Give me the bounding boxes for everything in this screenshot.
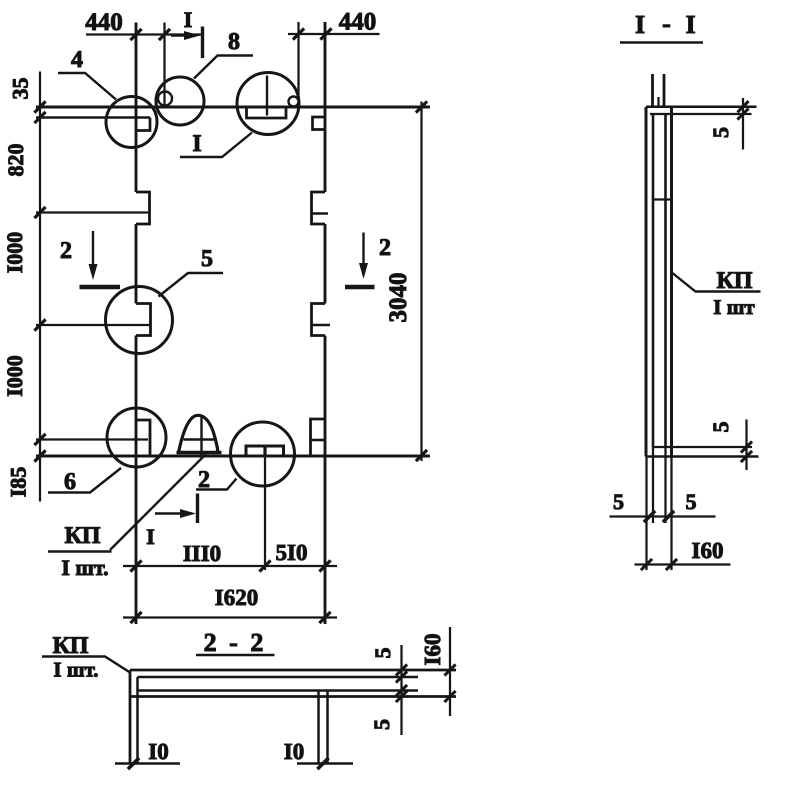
svg-text:5: 5 [708, 422, 733, 433]
svg-text:I60: I60 [692, 538, 724, 563]
dim line 1110 / 510 [123, 565, 337, 567]
svg-text:КП: КП [52, 633, 88, 659]
tick [34, 207, 45, 218]
section bottom edge [646, 455, 759, 458]
leader of detail 4 [58, 73, 116, 100]
detail circle 6 [107, 408, 166, 467]
tick [444, 664, 455, 675]
tick [416, 101, 427, 112]
svg-text:5: 5 [369, 719, 394, 730]
svg-text:I шт: I шт [713, 295, 755, 319]
keyway upper-left [136, 192, 150, 224]
left rib outer [129, 670, 132, 764]
keyway upper-right [312, 192, 326, 224]
panel top edge [36, 106, 430, 109]
svg-text:6: 6 [64, 469, 76, 495]
svg-text:I шт.: I шт. [53, 658, 98, 682]
keyway row line bottom-left [36, 438, 148, 440]
tick [396, 664, 407, 675]
lifting loop in detail 8 [158, 92, 172, 106]
tick [293, 28, 304, 39]
keyway bottom-right [311, 419, 326, 456]
mid rib left [317, 691, 320, 764]
leader of detail 8 [194, 56, 253, 79]
svg-text:I620: I620 [215, 585, 258, 610]
loop wire left [651, 74, 654, 106]
mark leader to bump [110, 454, 206, 550]
dim 5 top right [742, 98, 744, 150]
lifting bump on bottom edge [179, 415, 219, 452]
extension lines to 160 dim [647, 523, 672, 570]
tick [34, 319, 45, 330]
keyway mid-right [312, 304, 326, 336]
left dimension chain line [39, 72, 41, 502]
svg-text:I шт.: I шт. [61, 555, 108, 580]
mark leader I-I [671, 272, 761, 292]
lifting bump centre line [200, 416, 202, 455]
tick [737, 101, 748, 112]
tick [416, 450, 427, 461]
section 2 bar left [80, 285, 121, 290]
corner step in detail 4 [136, 118, 150, 131]
extension line hole axis [163, 23, 165, 108]
lifting bump base [177, 451, 222, 455]
section 2 bar right [345, 285, 375, 290]
dim line 10 left [115, 762, 180, 764]
svg-text:I: I [184, 7, 193, 32]
tick [130, 612, 141, 623]
panel left edge [135, 23, 138, 625]
tick [130, 29, 141, 40]
tick [159, 29, 170, 40]
tick [644, 511, 655, 522]
tick [396, 691, 407, 702]
tick [396, 685, 407, 696]
keyway mid-left (detail 5) [136, 304, 151, 336]
section I arrow bottom [155, 512, 188, 514]
slab inner top line [138, 676, 419, 679]
svg-text:III0: III0 [183, 541, 221, 566]
keyway row bar mid-right [312, 324, 331, 327]
svg-text:5I0: 5I0 [276, 540, 308, 565]
svg-text:I0: I0 [148, 739, 168, 764]
section outer left edge [645, 107, 648, 457]
section top edge [646, 105, 757, 108]
svg-text:КП: КП [64, 523, 100, 549]
keyway row bar bottom-right [311, 439, 325, 442]
svg-text:I85: I85 [6, 467, 31, 498]
tick [259, 560, 270, 571]
svg-text:4: 4 [71, 47, 83, 73]
extension lines below section [647, 447, 672, 523]
panel right edge [324, 22, 327, 624]
svg-text:I000: I000 [2, 232, 27, 274]
detail circle 2 [231, 422, 295, 486]
svg-text:3040: 3040 [385, 273, 412, 323]
svg-text:440: 440 [339, 9, 377, 36]
loop wire stub [657, 97, 659, 106]
section I bar top [201, 27, 204, 59]
svg-text:I0: I0 [284, 739, 304, 764]
section inner bottom line [654, 446, 753, 448]
dim line 440 left [86, 33, 204, 35]
loop wire right [663, 74, 666, 106]
tick [319, 560, 330, 571]
lifting bump chord [184, 438, 218, 441]
heading underline [620, 41, 703, 44]
leader of detail I [180, 133, 252, 158]
svg-text:2: 2 [198, 467, 210, 493]
tick [666, 559, 677, 570]
svg-text:I: I [685, 10, 695, 39]
svg-text:I: I [192, 131, 201, 157]
mark underline 2-2 [42, 657, 130, 673]
section inner right face [664, 114, 667, 447]
tick [317, 758, 328, 769]
svg-text:5: 5 [613, 489, 624, 514]
svg-text:440: 440 [85, 9, 123, 36]
svg-text:5: 5 [370, 648, 395, 659]
tick [737, 108, 748, 119]
tick [34, 112, 45, 123]
svg-text:820: 820 [3, 144, 28, 177]
mid rib right [326, 691, 329, 764]
slab bottom surface [130, 695, 456, 698]
left rib inner [136, 677, 139, 764]
slab inner bottom line [138, 689, 419, 692]
svg-text:5: 5 [201, 246, 213, 272]
svg-text:-: - [662, 9, 671, 38]
leader of detail 5 [159, 273, 224, 297]
detail circle 5 [106, 287, 173, 354]
tick [663, 511, 674, 522]
section inner top line [650, 113, 752, 115]
keyway stem [263, 446, 266, 457]
dim line 3040 [420, 102, 422, 462]
detail circle 4 [106, 97, 157, 148]
dim line 1620 [123, 616, 337, 618]
section mid joint tick [653, 198, 671, 200]
section inner left face [652, 114, 655, 447]
tick [34, 101, 45, 112]
svg-text:I: I [635, 10, 645, 39]
dim line 160 2-2 [449, 627, 451, 716]
keyway bottom-left [136, 420, 150, 456]
svg-text:I000: I000 [2, 355, 27, 397]
svg-text:35: 35 [8, 78, 33, 100]
tick [130, 560, 141, 571]
keyway row line mid-left [36, 324, 151, 326]
svg-text:5: 5 [686, 489, 697, 514]
panel bottom edge [36, 454, 430, 457]
mark underline [48, 550, 112, 553]
section I bar bottom [196, 494, 199, 524]
top edge recess in detail I [247, 107, 287, 118]
tick [741, 451, 752, 462]
tick [741, 441, 752, 452]
centre line in detail I [266, 76, 268, 116]
keyway row bar upper-right [312, 212, 329, 215]
tick [319, 612, 330, 623]
svg-text:I: I [146, 524, 155, 549]
dim line 5 5 walls [610, 515, 716, 517]
dim line 440 right [288, 33, 380, 35]
dim line 160 [635, 563, 731, 565]
section I arrow top [171, 34, 193, 36]
leader of detail 2 [196, 479, 237, 490]
corner step bracket top-right [313, 117, 327, 130]
tick [444, 691, 455, 702]
slab top surface [130, 669, 456, 672]
svg-text:5: 5 [708, 127, 733, 138]
heading underline [196, 654, 275, 657]
svg-text:2: 2 [379, 235, 391, 261]
detail circle I [237, 73, 299, 135]
extension line keyway axis bottom [264, 446, 266, 570]
dim line 5 5 right 2-2 [400, 645, 402, 735]
tick [641, 559, 652, 570]
dim 5 bottom right [745, 420, 747, 471]
detail circle 8 [156, 77, 204, 125]
tick [34, 450, 45, 461]
keyway row line upper-left [36, 211, 150, 213]
section outer right edge [670, 107, 673, 457]
lifting loop in detail I [289, 97, 299, 107]
leader of detail 6 [48, 468, 121, 493]
svg-text:I60: I60 [420, 634, 445, 666]
dim line 10 mid [297, 762, 353, 764]
keyway in bottom edge (detail 2) [246, 446, 284, 456]
extension line loop axis [297, 22, 299, 98]
tick [396, 671, 407, 682]
panel top recess line (35 step) [36, 116, 150, 119]
tick [34, 434, 45, 445]
tick [128, 758, 139, 769]
svg-text:2: 2 [60, 238, 72, 264]
section 2 arrow left [92, 231, 94, 272]
svg-text:2 - 2: 2 - 2 [204, 628, 267, 657]
svg-text:КП: КП [716, 268, 752, 294]
section 2 arrow right [362, 233, 364, 272]
svg-text:8: 8 [228, 29, 240, 55]
tick [320, 28, 331, 39]
